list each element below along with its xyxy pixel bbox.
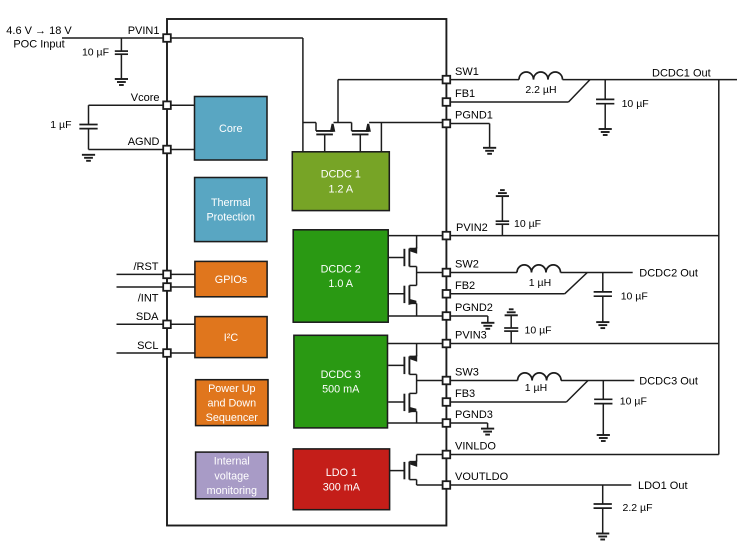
capacitor C7 10uF (594, 395, 647, 407)
wire PGND3 to ground (446, 423, 487, 429)
wire DCDC1 drain bus (303, 122, 316, 124)
wire Q1 source to Q2 drain (334, 122, 352, 124)
pin SCL square (163, 349, 171, 357)
svg-text:I²C: I²C (224, 332, 239, 344)
svg-text:1 µF: 1 µF (50, 119, 71, 131)
node POC Input label (6, 25, 72, 50)
wire SCL (117, 352, 195, 354)
wire PGND1 to ground (446, 124, 489, 148)
svg-text:500 mA: 500 mA (322, 384, 360, 396)
pin VOUTLDO square (443, 481, 451, 489)
svg-text:PGND3: PGND3 (455, 409, 493, 421)
svg-text:PGND2: PGND2 (455, 302, 493, 314)
wire PGND3 internal (388, 422, 447, 424)
ground below C8 (596, 533, 609, 535)
svg-text:Power Up: Power Up (208, 383, 255, 395)
pin SW1 (455, 66, 479, 78)
pin FB3 square (443, 398, 451, 406)
block LDO1 (293, 449, 389, 510)
wire PGND2 to ground (446, 316, 487, 323)
capacitor C6 10uF (504, 324, 551, 336)
block DCDC2 (293, 230, 388, 322)
block Core (195, 97, 268, 161)
svg-text:Vcore: Vcore (131, 92, 160, 104)
pin PGND1 (455, 110, 493, 122)
block Internal voltage monitoring (196, 452, 268, 499)
pin PGND3 square (443, 419, 451, 427)
pin PGND2 square (443, 312, 451, 320)
pin FB2 (455, 280, 475, 292)
svg-text:VINLDO: VINLDO (455, 441, 496, 453)
pin PVIN1 (128, 25, 160, 37)
pin SW2 (455, 259, 479, 271)
svg-text:DCDC 3: DCDC 3 (321, 369, 361, 381)
block Power Up and Down Sequencer (196, 380, 268, 426)
svg-text:Protection: Protection (206, 212, 255, 224)
wire DCDC2 output (561, 272, 633, 274)
svg-text:10 µF: 10 µF (620, 395, 647, 407)
svg-text:10 µF: 10 µF (82, 46, 109, 58)
ground below C1 (115, 78, 128, 80)
svg-text:PVIN1: PVIN1 (128, 25, 160, 37)
wire FB1 (446, 101, 568, 103)
pin /INT square (163, 283, 171, 291)
inductor L3 1uH (518, 373, 562, 394)
svg-text:1 µH: 1 µH (529, 277, 551, 289)
svg-text:voltage: voltage (214, 470, 249, 482)
pin PGND2 (455, 302, 493, 314)
wire DCDC1 output (563, 79, 738, 81)
wire FB2 (446, 293, 564, 295)
svg-text:10 µF: 10 µF (621, 290, 648, 302)
pin VINLDO (455, 441, 496, 453)
ground PGND2 (481, 322, 494, 324)
svg-text:LDO 1: LDO 1 (326, 467, 357, 479)
pin SW3 square (443, 377, 451, 385)
wire PVIN1 input (62, 37, 167, 39)
pin AGND square (163, 146, 171, 154)
capacitor C3 lead (604, 80, 606, 129)
transistor Q7 LDO pass (390, 455, 418, 486)
wire FB1 diagonal tap (569, 80, 591, 102)
pin /INT (138, 293, 159, 305)
svg-text:GPIOs: GPIOs (215, 274, 248, 286)
transistor Q5 DCDC3 high-side (388, 344, 417, 381)
wire SW2 to inductor (446, 272, 517, 274)
svg-text:/INT: /INT (138, 293, 159, 305)
wire VINLDO external (446, 454, 718, 456)
wire SW1 internal (338, 80, 446, 123)
capacitor C2 1uF (50, 119, 97, 131)
block DCDC1 (292, 152, 389, 211)
svg-text:Sequencer: Sequencer (206, 412, 259, 424)
capacitor C1 10uF (82, 46, 128, 58)
svg-text:/RST: /RST (133, 261, 158, 273)
svg-text:SW1: SW1 (455, 66, 479, 78)
svg-text:monitoring: monitoring (207, 485, 257, 497)
pin PVIN2 (456, 222, 488, 234)
ground PGND1 (483, 147, 496, 149)
pin SDA square (163, 321, 171, 329)
transistor Q2 DCDC1 low-side (352, 123, 371, 152)
svg-text:DCDC 2: DCDC 2 (321, 264, 361, 276)
svg-text:1 µH: 1 µH (525, 382, 547, 394)
capacitor C2 lead (88, 105, 90, 149)
svg-text:PVIN3: PVIN3 (455, 330, 487, 342)
capacitor C3 10uF (596, 98, 649, 110)
pin FB2 square (443, 290, 451, 298)
wire SW3 internal (417, 380, 447, 382)
wire SW1 to inductor (446, 79, 519, 81)
IC boundary U1 (167, 19, 446, 526)
ground above C6 (505, 314, 518, 316)
wire FB3 diagonal tap (566, 381, 588, 403)
pin VOUTLDO (455, 471, 509, 483)
svg-text:SW2: SW2 (455, 259, 479, 271)
inductor L2 1uH (517, 265, 561, 289)
wire DCDC1 output rail to PVIN2/PVIN3/VINLDO (718, 80, 720, 455)
capacitor C7 lead (602, 381, 604, 436)
svg-text:and Down: and Down (207, 397, 256, 409)
pin FB1 (455, 88, 475, 100)
block DCDC3 (294, 335, 388, 428)
capacitor C4 10uF (496, 218, 541, 230)
inductor L1 2.2uH (519, 72, 563, 96)
wire VOUTLDO external (446, 484, 631, 486)
svg-text:10 µF: 10 µF (514, 218, 541, 230)
wire PVIN2 internal (388, 235, 446, 237)
svg-text:Thermal: Thermal (211, 197, 251, 209)
wire VINLDO internal (417, 454, 447, 456)
transistor Q4 DCDC2 low-side (388, 273, 416, 317)
pin SW3 (455, 367, 479, 379)
block Thermal Protection (195, 178, 267, 242)
svg-text:Internal: Internal (214, 456, 250, 468)
svg-text:DCDC1 Out: DCDC1 Out (652, 68, 711, 80)
pin Vcore (131, 92, 160, 104)
svg-text:AGND: AGND (128, 136, 160, 148)
pin AGND (128, 136, 160, 148)
svg-text:DCDC 1: DCDC 1 (321, 169, 361, 181)
svg-text:10 µF: 10 µF (525, 324, 552, 336)
wire Vcore (89, 104, 195, 106)
svg-text:LDO1 Out: LDO1 Out (638, 480, 688, 492)
svg-text:2.2 µH: 2.2 µH (525, 84, 556, 96)
wire FB2 diagonal tap (565, 273, 588, 294)
svg-text:FB2: FB2 (455, 280, 475, 292)
wire PVIN3 internal (388, 343, 447, 345)
ground PGND3 (481, 428, 494, 430)
svg-text:1.2 A: 1.2 A (328, 183, 353, 195)
svg-text:2.2 µF: 2.2 µF (623, 502, 653, 514)
pin PVIN1 square (163, 34, 171, 42)
svg-text:DCDC2 Out: DCDC2 Out (639, 268, 698, 280)
pin SDA (136, 311, 159, 323)
svg-text:PVIN2: PVIN2 (456, 222, 488, 234)
wire /RST (117, 273, 195, 275)
capacitor C6 lead (510, 315, 512, 343)
pin FB1 square (443, 98, 451, 106)
ground below C7 (597, 434, 610, 436)
pin SCL (137, 340, 158, 352)
wire VOUTLDO internal (417, 484, 447, 486)
pin PGND1 square (443, 120, 451, 128)
svg-text:1.0 A: 1.0 A (328, 278, 353, 290)
capacitor C5 10uF (594, 290, 648, 302)
capacitor C1 lead (120, 38, 122, 79)
wire PVIN1 internal to DCDC1 (167, 38, 303, 152)
svg-text:POC Input: POC Input (13, 39, 64, 51)
capacitor C8 lead (602, 485, 604, 534)
svg-text:300 mA: 300 mA (323, 481, 361, 493)
pin /RST square (163, 271, 171, 279)
capacitor C4 lead (501, 196, 503, 236)
svg-text:10 µF: 10 µF (622, 98, 649, 110)
capacitor C5 lead (602, 273, 604, 323)
svg-text:PGND1: PGND1 (455, 110, 493, 122)
block I2C (195, 317, 267, 358)
svg-text:SW3: SW3 (455, 367, 479, 379)
wire Q2 source to PGND1 (369, 123, 446, 152)
ground below C2 (82, 154, 95, 156)
pin SW1 square (443, 76, 451, 84)
transistor Q3 DCDC2 high-side (388, 236, 417, 273)
transistor Q6 DCDC3 low-side (388, 381, 416, 424)
svg-text:VOUTLDO: VOUTLDO (455, 471, 509, 483)
block GPIOs (195, 261, 267, 296)
pin PVIN3 (455, 330, 487, 342)
svg-text:FB3: FB3 (455, 388, 475, 400)
pin VINLDO square (443, 451, 451, 459)
wire PGND2 internal (388, 315, 446, 317)
ground below C5 (596, 321, 609, 323)
wire SW3 to inductor (446, 380, 517, 382)
svg-text:DCDC3 Out: DCDC3 Out (639, 376, 698, 388)
ground above C4 (496, 195, 509, 197)
pin Vcore square (163, 101, 171, 109)
pin PGND3 (455, 409, 493, 421)
svg-text:SDA: SDA (136, 311, 159, 323)
wire SDA (117, 323, 195, 325)
pin PVIN3 square (443, 340, 451, 348)
svg-text:Core: Core (219, 123, 242, 135)
wire FB3 (446, 401, 566, 403)
svg-text:SCL: SCL (137, 340, 158, 352)
wire /INT (117, 286, 195, 288)
svg-text:FB1: FB1 (455, 88, 475, 100)
wire AGND (89, 149, 195, 151)
capacitor C8 2.2uF (594, 502, 653, 514)
wire PVIN3 external (446, 343, 718, 345)
wire DCDC3 output (561, 380, 634, 382)
wire PVIN2 external (446, 235, 718, 237)
pin FB3 (455, 388, 475, 400)
ground below C3 (599, 128, 612, 130)
pin /RST (133, 261, 158, 273)
wire SW2 internal (417, 272, 447, 274)
transistor Q1 DCDC1 high-side (316, 123, 335, 152)
pin PVIN2 square (443, 232, 451, 240)
svg-text:4.6 V → 18 V: 4.6 V → 18 V (6, 25, 72, 37)
pin SW2 square (443, 269, 451, 277)
